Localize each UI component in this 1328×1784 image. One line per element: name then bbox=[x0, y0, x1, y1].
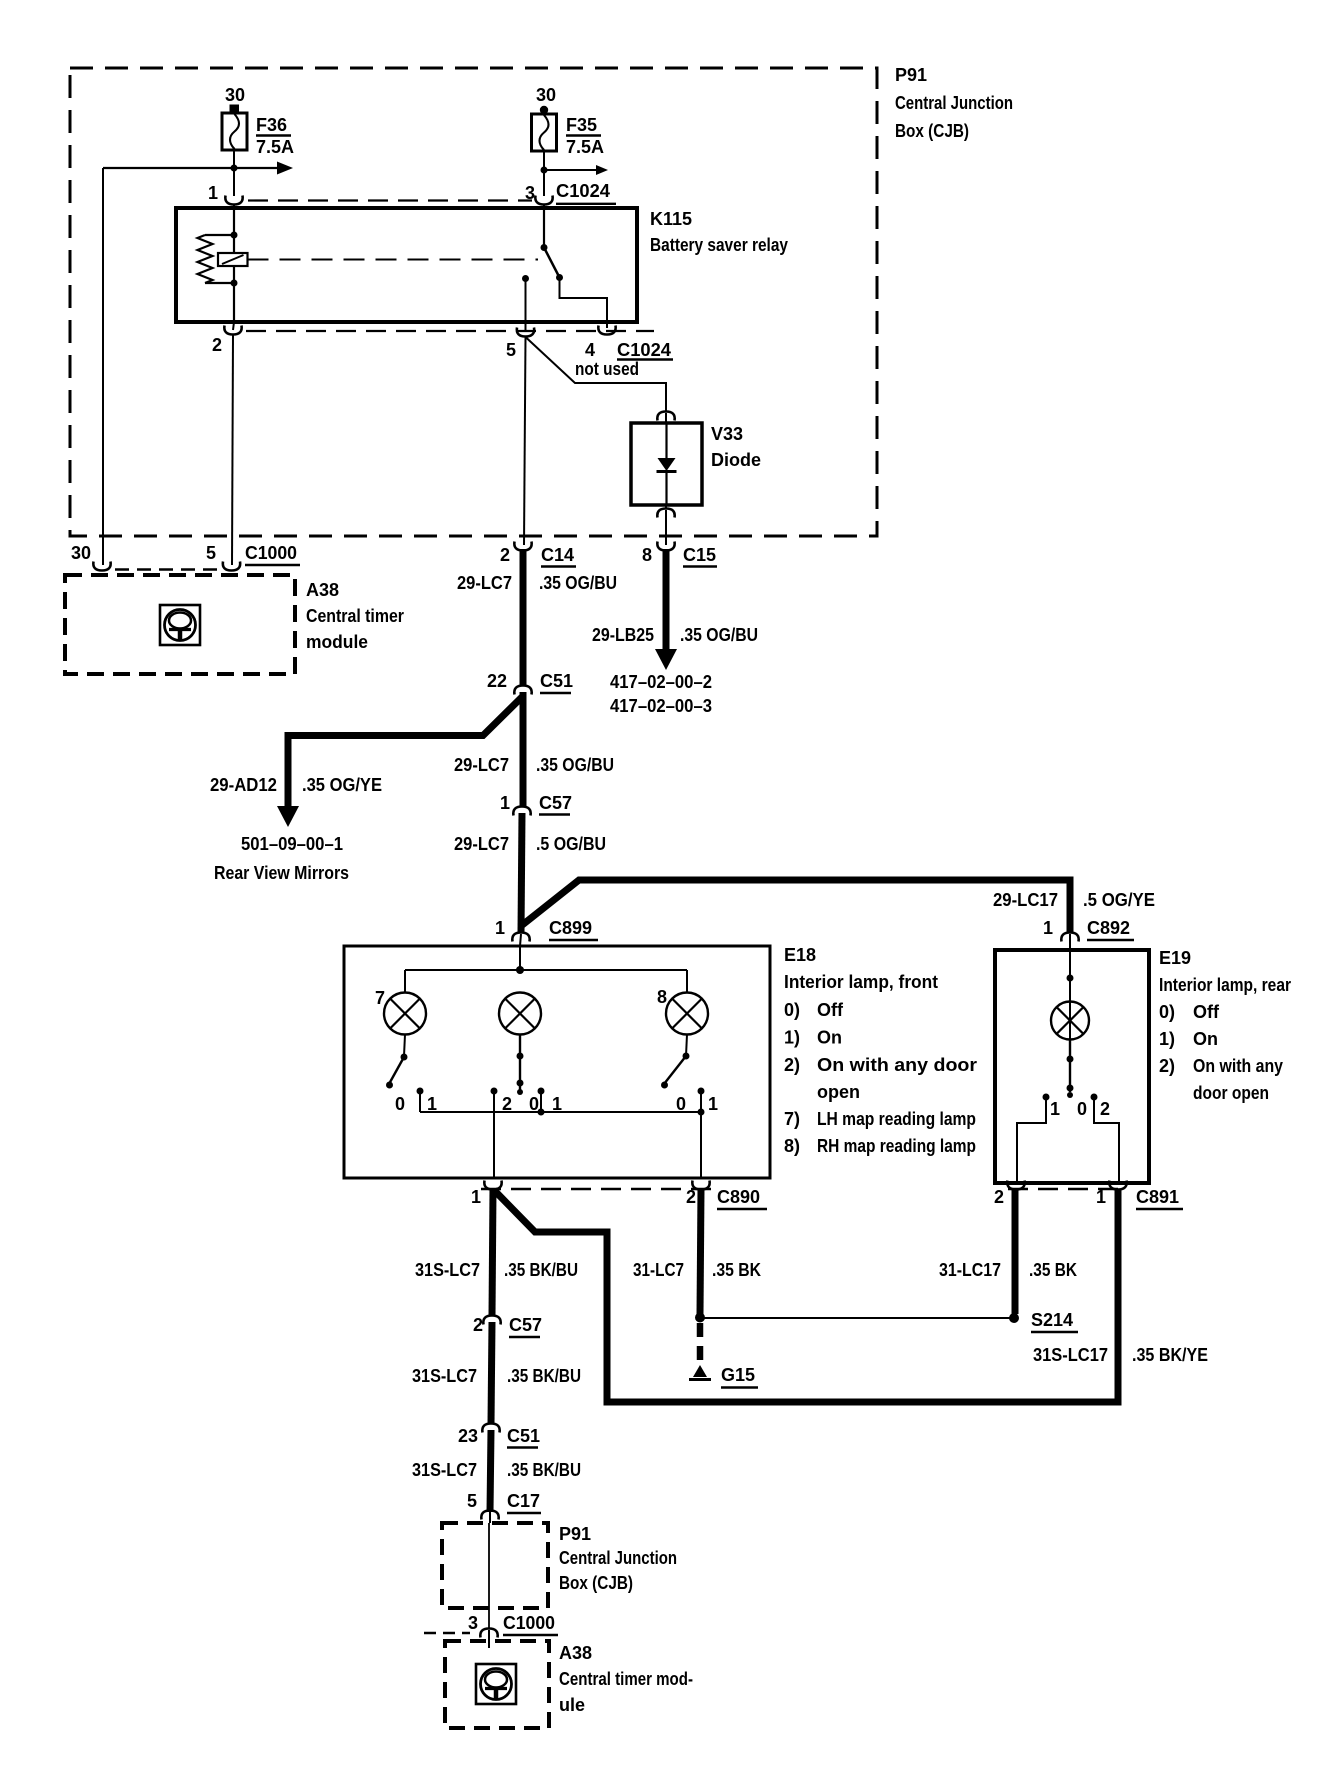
svg-text:30: 30 bbox=[71, 543, 91, 563]
svg-text:0: 0 bbox=[676, 1094, 686, 1114]
svg-text:C14: C14 bbox=[541, 545, 574, 565]
svg-text:30: 30 bbox=[225, 85, 245, 105]
svg-text:29-LC7: 29-LC7 bbox=[454, 834, 509, 854]
svg-text:Central Junction: Central Junction bbox=[559, 1548, 677, 1568]
svg-text:.35 BK/YE: .35 BK/YE bbox=[1132, 1345, 1208, 1365]
svg-text:.35 OG/BU: .35 OG/BU bbox=[680, 625, 758, 645]
svg-text:C57: C57 bbox=[539, 793, 572, 813]
svg-text:5: 5 bbox=[506, 340, 516, 360]
svg-text:C899: C899 bbox=[549, 918, 592, 938]
svg-text:0: 0 bbox=[395, 1094, 405, 1114]
svg-text:30: 30 bbox=[536, 85, 556, 105]
svg-text:Central Junction: Central Junction bbox=[895, 93, 1013, 113]
svg-text:C1024: C1024 bbox=[617, 340, 671, 360]
svg-text:1: 1 bbox=[500, 793, 510, 813]
svg-text:C1000: C1000 bbox=[245, 543, 297, 563]
svg-text:P91: P91 bbox=[895, 65, 927, 85]
svg-text:1: 1 bbox=[208, 183, 218, 203]
svg-text:On with any door: On with any door bbox=[817, 1055, 977, 1075]
svg-text:29-LC7: 29-LC7 bbox=[454, 755, 509, 775]
svg-text:F36: F36 bbox=[256, 115, 287, 135]
svg-text:C17: C17 bbox=[507, 1491, 540, 1511]
svg-text:7.5A: 7.5A bbox=[256, 137, 294, 157]
svg-text:.5 OG/YE: .5 OG/YE bbox=[1083, 890, 1155, 910]
svg-text:0): 0) bbox=[1159, 1002, 1175, 1022]
svg-text:Interior lamp, rear: Interior lamp, rear bbox=[1159, 975, 1291, 995]
svg-text:On: On bbox=[817, 1028, 842, 1048]
svg-text:A38: A38 bbox=[306, 580, 339, 600]
svg-text:22: 22 bbox=[487, 671, 507, 691]
svg-text:E18: E18 bbox=[784, 945, 816, 965]
svg-text:.35 BK/BU: .35 BK/BU bbox=[507, 1366, 581, 1386]
svg-text:2: 2 bbox=[473, 1315, 483, 1335]
svg-text:2: 2 bbox=[500, 545, 510, 565]
svg-text:C57: C57 bbox=[509, 1315, 542, 1335]
svg-text:P91: P91 bbox=[559, 1524, 591, 1544]
svg-text:31S-LC7: 31S-LC7 bbox=[415, 1260, 480, 1280]
svg-text:0: 0 bbox=[529, 1094, 539, 1114]
svg-text:23: 23 bbox=[458, 1426, 478, 1446]
svg-text:31-LC7: 31-LC7 bbox=[633, 1260, 684, 1280]
svg-text:29-LC7: 29-LC7 bbox=[457, 573, 512, 593]
svg-text:K115: K115 bbox=[650, 209, 692, 229]
svg-text:.35 BK: .35 BK bbox=[712, 1260, 761, 1280]
svg-text:2): 2) bbox=[784, 1055, 800, 1075]
svg-text:29-LB25: 29-LB25 bbox=[592, 625, 654, 645]
svg-text:8: 8 bbox=[642, 545, 652, 565]
svg-text:.5 OG/BU: .5 OG/BU bbox=[536, 834, 606, 854]
svg-text:1): 1) bbox=[784, 1028, 800, 1048]
svg-text:1: 1 bbox=[427, 1094, 437, 1114]
svg-text:2: 2 bbox=[686, 1187, 696, 1207]
svg-text:C892: C892 bbox=[1087, 918, 1130, 938]
svg-text:2: 2 bbox=[212, 335, 222, 355]
svg-text:0: 0 bbox=[1077, 1099, 1087, 1119]
svg-text:G15: G15 bbox=[721, 1365, 755, 1385]
svg-text:8): 8) bbox=[784, 1136, 800, 1156]
svg-text:C51: C51 bbox=[507, 1426, 540, 1446]
svg-text:2: 2 bbox=[994, 1187, 1004, 1207]
svg-text:.35 OG/BU: .35 OG/BU bbox=[539, 573, 617, 593]
svg-text:1: 1 bbox=[1043, 918, 1053, 938]
svg-text:3: 3 bbox=[468, 1613, 478, 1633]
svg-text:31S-LC7: 31S-LC7 bbox=[412, 1366, 477, 1386]
svg-text:Box (CJB): Box (CJB) bbox=[559, 1573, 633, 1593]
svg-text:On with any: On with any bbox=[1193, 1056, 1283, 1076]
svg-text:1: 1 bbox=[708, 1094, 718, 1114]
svg-text:2): 2) bbox=[1159, 1056, 1175, 1076]
svg-text:.35 BK: .35 BK bbox=[1029, 1260, 1077, 1280]
svg-text:Interior lamp, front: Interior lamp, front bbox=[784, 972, 938, 992]
svg-text:V33: V33 bbox=[711, 424, 743, 444]
svg-text:.35 OG/YE: .35 OG/YE bbox=[302, 775, 382, 795]
svg-text:2: 2 bbox=[502, 1094, 512, 1114]
svg-text:Rear View Mirrors: Rear View Mirrors bbox=[214, 863, 349, 883]
svg-text:1: 1 bbox=[495, 918, 505, 938]
svg-text:7: 7 bbox=[375, 988, 385, 1008]
svg-text:not used: not used bbox=[575, 359, 639, 379]
svg-text:LH map reading lamp: LH map reading lamp bbox=[817, 1109, 976, 1129]
svg-text:RH map reading lamp: RH map reading lamp bbox=[817, 1136, 976, 1156]
svg-text:1: 1 bbox=[1096, 1187, 1106, 1207]
svg-text:Diode: Diode bbox=[711, 450, 761, 470]
svg-text:Central timer: Central timer bbox=[306, 606, 404, 626]
svg-text:door open: door open bbox=[1193, 1083, 1269, 1103]
svg-text:module: module bbox=[306, 632, 368, 652]
svg-text:31S-LC7: 31S-LC7 bbox=[412, 1460, 477, 1480]
svg-text:Off: Off bbox=[817, 1000, 844, 1020]
svg-text:Battery saver relay: Battery saver relay bbox=[650, 235, 788, 255]
svg-text:5: 5 bbox=[467, 1491, 477, 1511]
svg-text:open: open bbox=[817, 1082, 860, 1102]
svg-text:C890: C890 bbox=[717, 1187, 760, 1207]
svg-text:2: 2 bbox=[1100, 1099, 1110, 1119]
svg-text:.35 BK/BU: .35 BK/BU bbox=[507, 1460, 581, 1480]
svg-text:C1000: C1000 bbox=[503, 1613, 555, 1633]
svg-text:5: 5 bbox=[206, 543, 216, 563]
svg-text:C15: C15 bbox=[683, 545, 716, 565]
svg-text:Off: Off bbox=[1193, 1002, 1220, 1022]
svg-text:C51: C51 bbox=[540, 671, 573, 691]
svg-text:1: 1 bbox=[552, 1094, 562, 1114]
svg-text:1): 1) bbox=[1159, 1029, 1175, 1049]
svg-text:.35 BK/BU: .35 BK/BU bbox=[504, 1260, 578, 1280]
svg-text:417–02–00–2: 417–02–00–2 bbox=[610, 672, 712, 692]
svg-text:4: 4 bbox=[585, 340, 595, 360]
svg-text:E19: E19 bbox=[1159, 948, 1191, 968]
svg-text:31-LC17: 31-LC17 bbox=[939, 1260, 1001, 1280]
svg-text:501–09–00–1: 501–09–00–1 bbox=[241, 834, 343, 854]
svg-text:0): 0) bbox=[784, 1000, 800, 1020]
svg-text:29-AD12: 29-AD12 bbox=[210, 775, 277, 795]
svg-text:31S-LC17: 31S-LC17 bbox=[1033, 1345, 1108, 1365]
svg-text:1: 1 bbox=[471, 1187, 481, 1207]
svg-text:C891: C891 bbox=[1136, 1187, 1179, 1207]
svg-text:Central timer mod-: Central timer mod- bbox=[559, 1669, 693, 1689]
svg-text:C1024: C1024 bbox=[556, 181, 610, 201]
svg-text:ule: ule bbox=[559, 1695, 585, 1715]
svg-text:1: 1 bbox=[1050, 1099, 1060, 1119]
svg-text:8: 8 bbox=[657, 987, 667, 1007]
svg-text:S214: S214 bbox=[1031, 1310, 1073, 1330]
svg-text:A38: A38 bbox=[559, 1643, 592, 1663]
svg-text:7): 7) bbox=[784, 1109, 800, 1129]
svg-text:29-LC17: 29-LC17 bbox=[993, 890, 1058, 910]
svg-text:.35 OG/BU: .35 OG/BU bbox=[536, 755, 614, 775]
svg-text:F35: F35 bbox=[566, 115, 597, 135]
svg-text:On: On bbox=[1193, 1029, 1218, 1049]
svg-text:Box (CJB): Box (CJB) bbox=[895, 121, 969, 141]
svg-text:417–02–00–3: 417–02–00–3 bbox=[610, 696, 712, 716]
svg-text:7.5A: 7.5A bbox=[566, 137, 604, 157]
